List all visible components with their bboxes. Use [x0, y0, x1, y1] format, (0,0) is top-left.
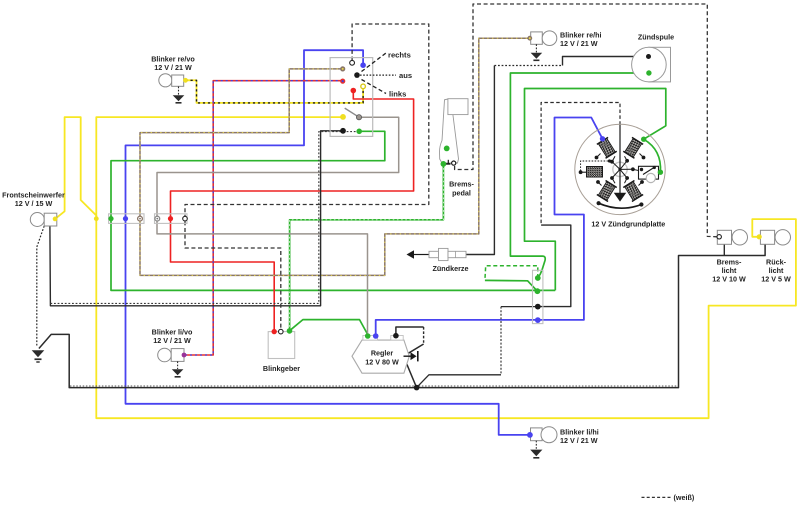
Regler terminal block left: [363, 336, 378, 341]
wire black: brake light socket ground: [723, 244, 725, 255]
wire blue: regulator to connector C: [376, 320, 538, 336]
wire white dashed W1: brake switch to Bremslicht (outer border): [455, 4, 717, 237]
ground Blinker li/vo: [172, 361, 184, 377]
connector C block: [533, 270, 543, 323]
connector B block: [155, 214, 188, 224]
lamp Blinker re/vo: [159, 74, 184, 87]
legend dashed = white wires: [642, 496, 672, 498]
switch pointer aus (dotted): [360, 74, 396, 76]
wire black: headlight to switch: [50, 131, 343, 306]
ground headlight (chassis): [32, 350, 45, 362]
svg-text:(weiß): (weiß): [674, 493, 695, 502]
base plate radial links: [612, 161, 633, 178]
wire black HT lead: spark plug to ignition coil: [466, 66, 494, 255]
svg-text:aus: aus: [399, 71, 412, 80]
svg-text:Regler: Regler: [371, 349, 394, 358]
connector A pin brown (ring): [138, 216, 143, 221]
wire green dotted: brake pedal switch to Blinkgeber branch and regulator: [290, 164, 444, 331]
lamp Blinker li/hi: [531, 427, 558, 443]
connector C pin blue: [535, 317, 541, 323]
wire black ground bus along frame: [39, 244, 765, 387]
wire black dashed: ignition base plate shaft feed: [541, 103, 620, 226]
connector B pin gray (ring): [155, 216, 160, 221]
node yellow junction: [94, 216, 99, 221]
wire white dashed W2: switch top via connector B to Blinkgeber: [185, 24, 429, 329]
svg-text:12 V / 21 W: 12 V / 21 W: [560, 436, 598, 445]
brake switch green pin lower: [441, 161, 447, 167]
brake switch green pin upper: [444, 146, 450, 152]
lamp Blinker li/vo: [158, 348, 184, 362]
lamp Blinker re/hi: [531, 31, 557, 46]
svg-text:Zündkerze: Zündkerze: [433, 264, 469, 273]
svg-text:12 V / 21 W: 12 V / 21 W: [154, 63, 192, 72]
wire black dotted: headlight to ground: [37, 226, 44, 347]
wire white dashed: headlight to switch (parallel run): [50, 132, 358, 304]
svg-text:12 V 10 W: 12 V 10 W: [712, 275, 746, 284]
switch pin yellow (light): [340, 114, 346, 120]
svg-text:12 V Zündgrundplatte: 12 V Zündgrundplatte: [591, 220, 665, 229]
wire black: regulator ground loop: [396, 327, 424, 388]
svg-text:Blinkgeber: Blinkgeber: [263, 364, 300, 373]
base plate contact breaker east: [639, 166, 659, 183]
wire red/blue striped: switch to Blinker li/vo: [184, 81, 343, 355]
wire black ground: connector C to chassis bus: [417, 307, 538, 388]
base plate lighting coil west: [579, 159, 611, 177]
wire black ground bus dotted edge: [70, 385, 679, 387]
connector A block: [109, 214, 144, 224]
wire black: connector C to ignition base plate: [538, 225, 571, 307]
svg-text:pedal: pedal: [452, 189, 471, 198]
svg-text:links: links: [389, 90, 406, 99]
ground Blinker li/hi: [530, 441, 542, 459]
Regler pin green: [365, 333, 371, 339]
wire green G3: ignition coil armature to green feed: [525, 89, 666, 291]
wire green G1: switch to connector A, main green feed to connector C: [111, 131, 555, 290]
connector C pin green 1: [535, 275, 541, 281]
Bremslicht pin white (open): [717, 235, 721, 239]
switch (Blinkerschalter) box: [330, 58, 373, 137]
Blinkgeber pin green: [287, 328, 293, 334]
connector B pin red: [168, 216, 173, 221]
switch pin brown/yellow: [340, 66, 345, 71]
base plate center hub: [613, 162, 627, 176]
switch pin white (top, open): [350, 60, 355, 65]
connector A pin blue: [123, 216, 128, 221]
base plate breaker green terminal: [658, 170, 663, 175]
base plate coil inner leads: [597, 154, 644, 186]
Regler ground arrow symbol: [404, 351, 418, 361]
base plate internal green link (arc to breaker): [644, 139, 661, 172]
brake switch contacts: [441, 160, 456, 165]
base plate blue entry pin: [600, 136, 605, 141]
wire brown/yellow: switch via connector A to Blinker re/hi: [140, 38, 530, 275]
Ruecklicht pin yellow: [757, 234, 762, 239]
base plate coil SW: [597, 181, 617, 202]
switch pin green: [356, 129, 362, 135]
svg-text:12 V 5 W: 12 V 5 W: [761, 275, 791, 284]
switch pointer links: [362, 80, 387, 94]
svg-text:12 V / 15 W: 12 V / 15 W: [15, 199, 53, 208]
connector C pin green 2: [535, 288, 541, 294]
Regler pin black: [393, 333, 399, 339]
Zuendspule pin green: [646, 70, 651, 75]
switch pin yellow (open): [361, 84, 366, 89]
svg-text:12 V / 21 W: 12 V / 21 W: [153, 336, 191, 345]
svg-text:rechts: rechts: [388, 51, 411, 60]
lamp Frontscheinwerfer: [30, 213, 57, 227]
lamp Ruecklicht: [760, 230, 790, 245]
wire blue: switch to connector A to Blinker li/hi: [126, 50, 530, 435]
svg-text:12 V / 21 W: 12 V / 21 W: [560, 39, 598, 48]
switch pointer rechts: [362, 53, 387, 72]
switch pin red/blue: [340, 79, 345, 84]
lamp Bremslicht: [717, 230, 747, 245]
ground Blinker re/vo: [173, 87, 185, 104]
Blinkgeber box: [268, 332, 295, 359]
base plate green entry pin: [641, 137, 646, 142]
brake pedal (Bremspedal): [440, 99, 469, 163]
wire green G4: Zuendspule low tension to connector C: [510, 73, 649, 278]
base plate coil SE: [623, 181, 643, 202]
Blinkgeber pin white (open): [279, 329, 284, 334]
base plate coil NE: [623, 137, 643, 158]
wire red: switch to connector B to Blinkgeber: [171, 91, 414, 332]
svg-text:Zündspule: Zündspule: [638, 33, 674, 42]
switch pin black (headlight): [340, 128, 346, 134]
wire blue: ignition base plate coil to connector C: [538, 118, 603, 320]
base plate bottom arc winding: [599, 203, 642, 208]
spark plug (Zuendkerze) with engine arrow: [407, 248, 467, 260]
wire yellow headlight branch: [55, 117, 96, 219]
connector A pin green: [108, 216, 113, 221]
connector B pin white (open): [183, 216, 188, 221]
ignition base plate (12 V Zuendgrundplatte) outer circle: [575, 124, 665, 214]
svg-text:12 V 80 W: 12 V 80 W: [365, 358, 399, 367]
wire green dashed jumper on connector C: [485, 266, 538, 281]
base plate crank shaft with arrow: [619, 125, 621, 193]
wire yellow/black dashed: Blinker re/vo to switch: [186, 80, 364, 103]
ignition coil (Zuendspule): [649, 47, 671, 82]
regulator (Regler) hexagon body: [352, 340, 409, 373]
base plate coil NW: [597, 137, 617, 158]
Zuendspule pin black (HT): [646, 54, 651, 59]
connector C pin black: [535, 304, 541, 310]
Regler terminal block right: [391, 336, 403, 341]
Blinkgeber pin red: [272, 329, 277, 334]
switch pin red: [351, 88, 357, 94]
switch lever with pivot: [345, 108, 359, 117]
ground Blinker re/hi: [531, 44, 543, 61]
Regler pin blue: [373, 333, 379, 339]
svg-text:Brems-: Brems-: [449, 180, 474, 189]
wire yellow main: switch term 51 to headlight branch, tail light loop: [37, 4, 796, 435]
node chassis bus junction: [414, 385, 420, 391]
wire gray: switch lever contact to connector B to regulator: [157, 117, 399, 334]
switch common pin black (aus): [354, 72, 360, 78]
switch pin blue: [360, 62, 366, 68]
